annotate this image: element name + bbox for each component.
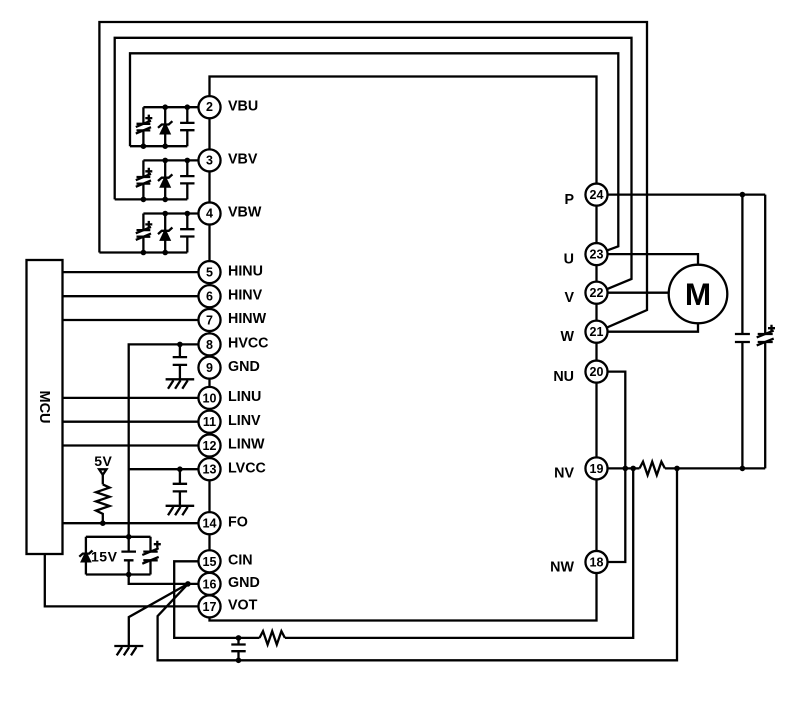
ground (HVCC bypass): [166, 379, 195, 388]
svg-text:15: 15: [203, 555, 217, 569]
wire HINU MCU to pin 5: [63, 271, 210, 273]
wire NV pin 19 to shunt resistor: [597, 467, 640, 469]
node NV rail junctions: [623, 466, 629, 472]
svg-text:21: 21: [590, 325, 604, 339]
wire LINW MCU to pin 12: [63, 444, 210, 446]
svg-text:11: 11: [203, 415, 216, 429]
pin 12 LINW: [198, 434, 220, 456]
svg-text:GND: GND: [228, 575, 260, 591]
wire VBV bootstrap top rail: [143, 159, 209, 161]
node VBU bottom rail junctions: [141, 143, 147, 149]
wire outer top loop (VBW bootstrap to pin 21 W): [99, 22, 647, 331]
node LVCC bypass junction: [177, 466, 183, 472]
svg-text:16: 16: [203, 577, 217, 591]
svg-text:HINU: HINU: [228, 263, 263, 279]
svg-text:GND: GND: [228, 359, 260, 375]
capacitor C4 (HVCC bypass): [173, 344, 187, 379]
wire 15V box to GND junction: [129, 575, 188, 584]
pin 2 VBU: [198, 96, 220, 118]
svg-text:18: 18: [590, 556, 604, 570]
svg-text:19: 19: [590, 462, 604, 476]
svg-text:17: 17: [203, 600, 217, 614]
wire VBW bootstrap top rail: [143, 212, 209, 214]
ground (LVCC bypass): [166, 506, 195, 515]
svg-text:12: 12: [203, 439, 217, 453]
pin 8 HVCC: [198, 333, 220, 355]
wire HVCC pin 8 to 15V supply rail: [129, 344, 210, 536]
node VBV top rail junctions: [162, 158, 168, 164]
svg-text:LINU: LINU: [228, 389, 261, 405]
svg-text:5V: 5V: [94, 453, 112, 469]
wire VBV bootstrap bottom rail: [115, 198, 188, 200]
wire middle top loop (VBV bootstrap to pin 22 V): [115, 38, 632, 293]
pin 4 VBW: [198, 202, 220, 224]
wire U pin 23 to motor: [597, 254, 699, 265]
node HVCC bypass junction: [177, 342, 183, 348]
svg-text:VBW: VBW: [228, 205, 262, 221]
resistor R1 (FO pull-up): [96, 484, 110, 523]
svg-text:FO: FO: [228, 514, 248, 530]
node CIN filter junctions: [236, 635, 242, 641]
electrolytic capacitor CB1 (VBU bootstrap): [136, 107, 153, 146]
pin 7 HINW: [198, 309, 220, 331]
svg-text:CIN: CIN: [228, 553, 253, 569]
svg-text:10: 10: [203, 391, 217, 405]
zener diode DZ2 (VBV bootstrap): [158, 160, 172, 199]
svg-text:LINW: LINW: [228, 437, 265, 453]
svg-text:3: 3: [206, 153, 213, 167]
motor M1: [669, 265, 728, 324]
svg-text:HVCC: HVCC: [228, 336, 269, 352]
pin numbers and labels: [203, 99, 604, 614]
zener diode DZ3 (VBW bootstrap): [158, 214, 172, 253]
capacitor C1 (VBU bootstrap): [180, 107, 194, 146]
capacitor C2 (VBV bootstrap): [180, 160, 194, 199]
electrolytic capacitor CB2 (VBV bootstrap): [136, 160, 153, 199]
svg-text:LVCC: LVCC: [228, 460, 266, 476]
electrolytic capacitor C10 (DC bus): [757, 195, 775, 469]
electrolytic capacitor CB3 (VBW bootstrap): [136, 214, 153, 253]
svg-text:VBU: VBU: [228, 99, 258, 115]
MCU block: [27, 260, 63, 554]
pin 3 VBV: [198, 149, 220, 171]
pin 5 HINU: [198, 261, 220, 283]
wire HINV MCU to pin 6: [63, 295, 210, 297]
svg-text:HINV: HINV: [228, 287, 263, 303]
wire CIN pin 15 to shunt filter rail: [174, 468, 633, 638]
pin 16 GND: [198, 573, 220, 595]
wire LVCC pin 13 to supply rail: [129, 468, 210, 470]
svg-text:NU: NU: [553, 369, 574, 385]
wire FO MCU to pin 14: [63, 522, 210, 524]
svg-text:M: M: [685, 276, 711, 312]
capacitor C3 (VBW bootstrap): [180, 214, 194, 253]
resistor R2 (CIN filter): [260, 631, 285, 644]
svg-text:NV: NV: [554, 466, 574, 482]
wire GND junction to earth ground: [129, 584, 188, 646]
node GND star junction: [185, 581, 191, 587]
svg-text:4: 4: [206, 207, 213, 221]
pin 22 V: [585, 282, 607, 304]
wire 15V clamp box rails: [86, 537, 151, 575]
svg-text:20: 20: [590, 365, 604, 379]
svg-text:9: 9: [206, 361, 213, 375]
wire shunt resistor to DC bus return: [665, 467, 765, 469]
IC module U1 outline: [210, 77, 597, 621]
svg-text:MCU: MCU: [36, 390, 52, 423]
capacitor C6 (15V filter): [121, 537, 136, 575]
wire HINW MCU to pin 7: [63, 319, 210, 321]
capacitor C5 (LVCC bypass): [173, 469, 187, 506]
ground (main, bottom left): [114, 646, 143, 655]
pin 24 P: [585, 184, 607, 206]
pin 6 HINV: [198, 285, 220, 307]
zener diode DZ4 (15V): [79, 537, 92, 575]
pin 9 GND: [198, 357, 220, 379]
svg-text:7: 7: [206, 314, 213, 328]
pin 19 NV: [585, 457, 607, 479]
pin 23 U: [585, 243, 607, 265]
node P bus junction: [740, 192, 746, 198]
node VBW bottom rail junctions: [141, 250, 147, 256]
pin 17 VOT: [198, 595, 220, 617]
svg-text:8: 8: [206, 338, 213, 352]
zener diode DZ1 (VBU bootstrap): [158, 107, 172, 146]
electrolytic capacitor C7 (15V filter): [142, 537, 161, 575]
capacitor C8 (CIN filter): [231, 638, 245, 660]
wire W pin 21 to motor: [597, 323, 699, 331]
node VBU top rail junctions: [162, 104, 168, 110]
svg-text:2: 2: [206, 100, 213, 114]
svg-text:VBV: VBV: [228, 152, 258, 168]
wire VBU bootstrap bottom rail: [130, 145, 187, 147]
svg-text:13: 13: [203, 463, 217, 477]
node FO pull-up junction: [100, 520, 106, 526]
svg-text:U: U: [564, 251, 574, 267]
pin 14 FO: [198, 512, 220, 534]
wire VBU bootstrap top rail: [143, 106, 209, 108]
wire VBW bootstrap bottom rail: [99, 251, 187, 253]
pin 15 CIN: [198, 550, 220, 572]
pin 18 NW: [585, 551, 607, 573]
wire LINV MCU to pin 11: [63, 421, 210, 423]
wire VOT MCU to pin 17: [45, 554, 210, 606]
wire P pin 24 to DC bus: [597, 193, 766, 195]
svg-text:14: 14: [203, 517, 217, 531]
svg-text:P: P: [564, 192, 574, 208]
svg-text:15V: 15V: [91, 549, 118, 565]
svg-text:24: 24: [590, 188, 604, 202]
node VBV bottom rail junctions: [141, 197, 147, 203]
pin circles left: [198, 96, 607, 617]
wire LINU MCU to pin 10: [63, 397, 210, 399]
pin 11 LINV: [198, 411, 220, 433]
svg-text:V: V: [564, 290, 574, 306]
node 15V rail junctions: [126, 534, 132, 540]
wire V pin 22 to motor: [597, 292, 669, 294]
svg-text:22: 22: [590, 286, 604, 300]
svg-text:LINV: LINV: [228, 413, 261, 429]
wire GND junction to bottom return rail: [158, 468, 677, 660]
node 5V supply arrow: [94, 453, 112, 484]
wire NU pin 20 to NW pin 18 tie: [597, 372, 626, 562]
pin 21 W: [585, 321, 607, 343]
svg-text:HINW: HINW: [228, 311, 267, 327]
svg-text:W: W: [561, 329, 575, 345]
pin 13 LVCC: [198, 458, 220, 480]
wire inner top loop (VBU bootstrap to pin 23 U): [130, 53, 618, 253]
resistor R3 (shunt at NV): [640, 462, 665, 475]
svg-text:NW: NW: [550, 559, 574, 575]
svg-text:VOT: VOT: [228, 598, 258, 614]
wire GND junction to pin 16: [188, 583, 210, 585]
pin 20 NU: [585, 361, 607, 383]
svg-text:6: 6: [206, 290, 213, 304]
pin 10 LINU: [198, 387, 220, 409]
node VBW top rail junctions: [162, 211, 168, 217]
svg-text:5: 5: [206, 266, 213, 280]
svg-text:23: 23: [590, 248, 604, 262]
capacitor C9 (DC bus snubber): [735, 195, 750, 469]
